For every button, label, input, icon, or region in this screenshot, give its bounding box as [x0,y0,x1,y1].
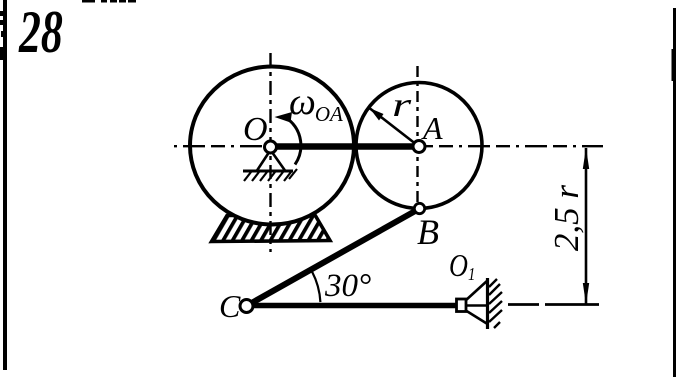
svg-text:30°: 30° [324,268,371,304]
pin C [240,300,253,313]
link C O1 [248,303,457,309]
svg-text:2,5 r: 2,5 r [547,185,586,252]
page right border [672,8,677,377]
horizontal center line through O and A [174,145,603,147]
svg-text:C: C [219,288,241,324]
svg-text:O1: O1 [449,249,475,285]
dimension line 2.5r [583,148,589,305]
pivot support at O : ground line [243,170,293,173]
page top edge remnant marks [82,0,136,3]
dashed line from O1 support to dimension line [508,303,599,306]
svg-text:B: B [417,212,439,252]
crank OA [271,143,420,150]
svg-text:28: 28 [18,0,63,66]
wheel A [356,83,482,209]
pivot support at O : hatching [244,169,297,181]
wheel O [190,67,354,225]
vertical center line of wheel O [269,53,271,252]
radius arrow r [370,108,420,147]
pivot support at O : legs [257,150,285,171]
support at O1 : hatching [489,279,502,328]
svg-text:r: r [392,86,412,124]
angular velocity arc [289,120,301,165]
pedestal under wheel O [212,215,331,242]
support at O1 : wall [486,278,489,329]
pin B [414,203,424,213]
svg-text:O: O [243,111,268,148]
support at O1 : bracket links [465,281,488,325]
link BC [248,210,417,305]
angular velocity arrowhead [275,112,293,123]
pin O [265,141,277,153]
vertical center line of wheel A [416,66,418,214]
angle arc 30 degrees [312,272,320,302]
pin O1 [457,299,467,312]
page left border [0,0,7,370]
pin A [413,141,425,153]
svg-text:A: A [421,110,443,146]
